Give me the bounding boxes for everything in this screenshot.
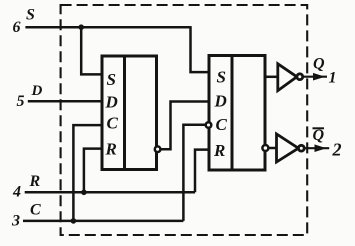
U1 pin label R	[105, 140, 117, 159]
wire inverted Q output arrow	[304, 145, 329, 151]
U2 output bubble	[262, 145, 268, 151]
svg-text:S: S	[26, 7, 35, 24]
pin 1 label	[329, 70, 337, 87]
inverter U4 (inverted Q buffer)	[277, 134, 305, 162]
wire pin 6 S line	[25, 26, 190, 29]
wire C to U2 (inverted clock)	[183, 125, 205, 221]
U1 pin label D	[105, 93, 118, 112]
wire pin 3 C line	[23, 220, 183, 223]
svg-text:1: 1	[329, 70, 337, 87]
wire R to U1	[84, 149, 102, 193]
input S label	[26, 7, 35, 24]
svg-text:3: 3	[11, 213, 20, 230]
pin 6 label	[13, 19, 21, 36]
wire R to U2	[195, 150, 209, 193]
svg-text:5: 5	[17, 93, 25, 110]
pin 2 label	[332, 140, 342, 160]
svg-text:S: S	[217, 68, 226, 87]
wire pin 4 R line	[25, 191, 195, 194]
U1 pin label S	[107, 70, 116, 89]
U2 C input bubble	[206, 122, 212, 128]
svg-text:4: 4	[12, 184, 21, 201]
input D label	[31, 83, 43, 99]
pin 5 label	[17, 93, 25, 110]
svg-text:Q: Q	[313, 56, 325, 73]
IC boundary dashed box	[61, 5, 308, 235]
svg-text:R: R	[105, 140, 117, 159]
junction node S	[78, 24, 84, 30]
pin 4 label	[12, 184, 21, 201]
U1 pin label C	[107, 114, 119, 133]
input R label	[29, 173, 41, 190]
wire S to U1	[81, 27, 102, 74]
output Q-bar label	[313, 127, 325, 144]
input C label	[30, 202, 41, 219]
svg-text:D: D	[105, 93, 118, 112]
svg-text:C: C	[30, 202, 41, 219]
svg-text:R: R	[29, 173, 41, 190]
junction node C	[71, 218, 77, 224]
U2 pin label S	[217, 68, 226, 87]
wire C to U1	[73, 125, 102, 221]
wire S to U2	[191, 26, 210, 72]
wire U2 to inverter U3	[265, 76, 278, 79]
junction node R	[81, 190, 87, 196]
svg-text:6: 6	[13, 19, 21, 36]
U1 output bubble	[155, 146, 161, 152]
svg-text:R: R	[213, 141, 225, 160]
svg-text:C: C	[107, 114, 119, 133]
U2 pin label D	[214, 92, 227, 111]
flip-flop U2 (slave latch)	[209, 56, 265, 171]
svg-text:D: D	[31, 83, 43, 99]
wire pin 5 D line	[28, 100, 102, 103]
output Q label	[313, 56, 325, 73]
svg-text:2: 2	[332, 140, 342, 160]
pin 3 label	[11, 213, 20, 230]
flip-flop U1 (master latch)	[102, 56, 157, 170]
U2 pin label C	[216, 115, 228, 134]
svg-text:C: C	[216, 115, 228, 134]
wire U1 output to U2 D input	[160, 102, 209, 150]
wire Q output arrow	[303, 74, 327, 80]
svg-text:D: D	[214, 92, 227, 111]
svg-text:Q: Q	[313, 127, 325, 144]
svg-text:S: S	[107, 70, 116, 89]
inverter U3 (Q buffer)	[278, 64, 303, 91]
U2 pin label R	[213, 141, 225, 160]
wire U2 bubble to inverter U4	[268, 147, 277, 150]
